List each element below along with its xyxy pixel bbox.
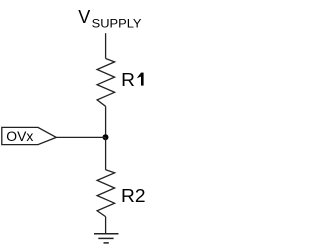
wire from OVx flag to node [56,136,105,138]
net label V_SUPPLY [78,7,141,30]
net flag OVx [2,127,57,144]
ground [94,234,119,243]
svg-text:R2: R2 [121,186,146,206]
svg-text:V: V [78,7,90,27]
resistor R1 [97,59,115,107]
label R1 [121,70,144,90]
svg-text:SUPPLY: SUPPLY [92,16,142,30]
svg-text:OVx: OVx [6,129,33,144]
node junction dot [103,134,109,140]
svg-text:R: R [121,70,135,90]
wire from node to R2 top [105,137,107,169]
wire from R1 bottom to node [105,106,107,137]
wire from V_SUPPLY to R1 top [105,33,107,58]
wire from R2 bottom to ground [105,217,107,234]
resistor R2 [97,170,115,217]
